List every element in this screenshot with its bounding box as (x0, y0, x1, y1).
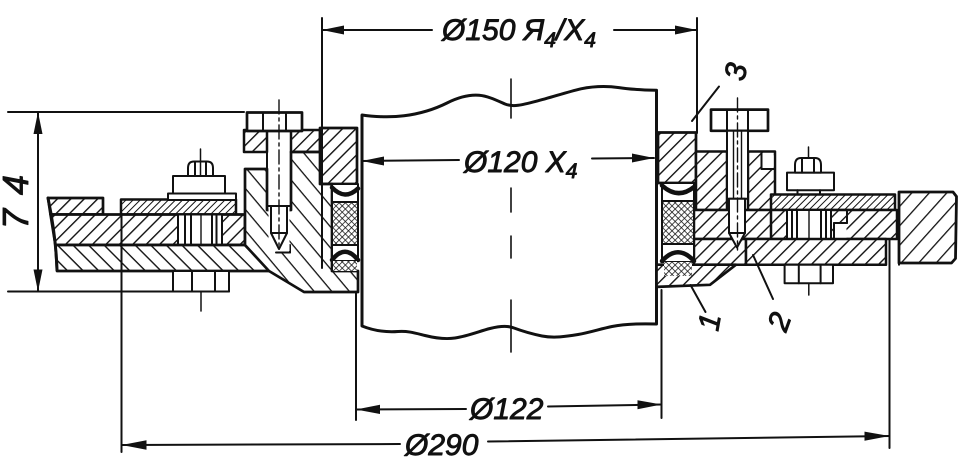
dimension D150 extension left (321, 18, 323, 268)
left gland plate left cell (244, 130, 267, 152)
left bolt centerline upper (200, 149, 202, 176)
right packing crosshatch (662, 201, 694, 244)
right pipe hub (899, 192, 957, 263)
left flange top nut washer (168, 194, 236, 201)
left packing crosshatch (332, 202, 358, 245)
svg-text:2: 2 (761, 308, 798, 336)
right gland body upper cells (696, 152, 727, 211)
left gland upper wall (320, 128, 357, 184)
left collar strip (fine hatch) (121, 200, 236, 215)
right packing lower crosshatch (664, 262, 692, 276)
dimension 74 line (37, 112, 39, 292)
svg-text:Ø150 Я4/Х4: Ø150 Я4/Х4 (441, 14, 596, 52)
right flange bottom band (746, 239, 886, 265)
right gland bolt stub and cone (729, 199, 745, 233)
right gland bolt shank (727, 131, 748, 199)
dimension D122 extension left (355, 292, 357, 420)
leader label 3 (692, 87, 719, 122)
right gland bolt head (711, 110, 768, 131)
right gland body lower (694, 239, 746, 265)
left gland bolt centerline (278, 100, 280, 245)
left gland bolt head (247, 113, 302, 132)
dimension 74 extension top (8, 111, 244, 113)
right flange notch (886, 239, 899, 265)
left flange boundary line y245 extended (245, 244, 290, 246)
left bolt centerline lower (200, 292, 202, 312)
left packing bottom ring (332, 245, 358, 261)
svg-text:Ø290: Ø290 (404, 429, 479, 462)
svg-text:Ø122: Ø122 (469, 393, 544, 426)
left gland body (245, 152, 358, 292)
right flange top nut washer (787, 173, 834, 191)
dimension D150 line (322, 29, 432, 31)
right packing bottom ring (662, 244, 694, 262)
left flange bolt shank in hole (178, 216, 222, 245)
left flange middle band (51, 215, 246, 246)
right packing top ring (662, 183, 694, 201)
right flange cap nut (795, 158, 821, 173)
left gland bolt shank (267, 131, 291, 206)
pipe centerline (510, 79, 512, 352)
right bolt centerline lower (808, 283, 810, 295)
central pipe body (362, 86, 657, 338)
right gland foot (657, 265, 737, 287)
right gland upper wall (658, 133, 696, 184)
dimension D122 line (356, 408, 466, 411)
right bolt nut below flange (785, 265, 833, 284)
left flange top nut body (173, 176, 225, 194)
left flange bolt hole (178, 216, 222, 245)
right flange bolt hole (787, 211, 831, 238)
dimension D290 line (122, 444, 401, 445)
left flange bottom band (55, 245, 269, 271)
left gland stub pocket (269, 206, 290, 251)
svg-text:74: 74 (0, 161, 36, 229)
leader label 2 (753, 255, 773, 299)
right gland recess (762, 153, 774, 169)
svg-text:3: 3 (719, 60, 755, 83)
dimension D290 extension right (889, 239, 891, 448)
left bolt nut below flange (173, 271, 229, 292)
right flange bolt centerline upper (808, 147, 810, 158)
right flange middle band (771, 210, 897, 239)
left flange cap nut top (188, 162, 213, 177)
leader label 1 (691, 285, 706, 312)
left gland bore step (269, 246, 290, 252)
right cap nut bolt stubs (798, 190, 821, 194)
left gland bolt stub and cone tip (271, 206, 287, 233)
left packing lower crosshatch (333, 261, 357, 271)
left packing top ring (332, 184, 358, 202)
dimension D120 line (362, 160, 459, 161)
svg-text:Ø120 Х4: Ø120 Х4 (463, 146, 577, 183)
right collar strip fine hatch (771, 195, 895, 211)
right gland body middle (694, 210, 775, 239)
right gland bolt centerline (737, 98, 739, 250)
dimension D150 extension right (696, 18, 698, 133)
right flange bore step (834, 223, 847, 238)
left gland plate right cell (291, 130, 320, 152)
dimension D290 extension left (121, 215, 123, 452)
left flange hub top cell (48, 198, 103, 215)
dimension 74 extension bottom (8, 291, 229, 293)
left flange curved outer edge (48, 198, 57, 270)
svg-text:1: 1 (692, 311, 727, 333)
dimension D122 extension right (661, 290, 663, 418)
